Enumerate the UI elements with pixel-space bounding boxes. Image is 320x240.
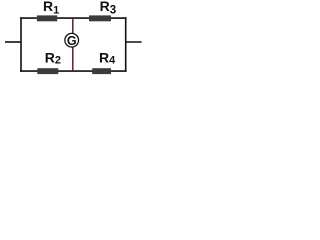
wire right terminal stub	[126, 41, 142, 43]
wire top (node B to node C via R1,R3)	[20, 17, 127, 19]
resistor R4	[92, 68, 111, 74]
wire left vertical (node B)	[20, 17, 22, 72]
wire right vertical (node C)	[125, 17, 127, 72]
svg-text:G: G	[67, 34, 77, 48]
galvanometer G (circle)	[65, 33, 79, 47]
background	[0, 0, 150, 80]
wire left terminal stub	[5, 41, 21, 43]
wire bottom (node B to node C via R2,R4)	[20, 70, 127, 72]
resistor R3	[89, 15, 111, 21]
wire galvanometer upper (red)	[72, 18, 74, 33]
resistor R1	[37, 15, 57, 21]
resistor R2	[37, 68, 58, 74]
wire galvanometer lower (red)	[72, 47, 74, 71]
